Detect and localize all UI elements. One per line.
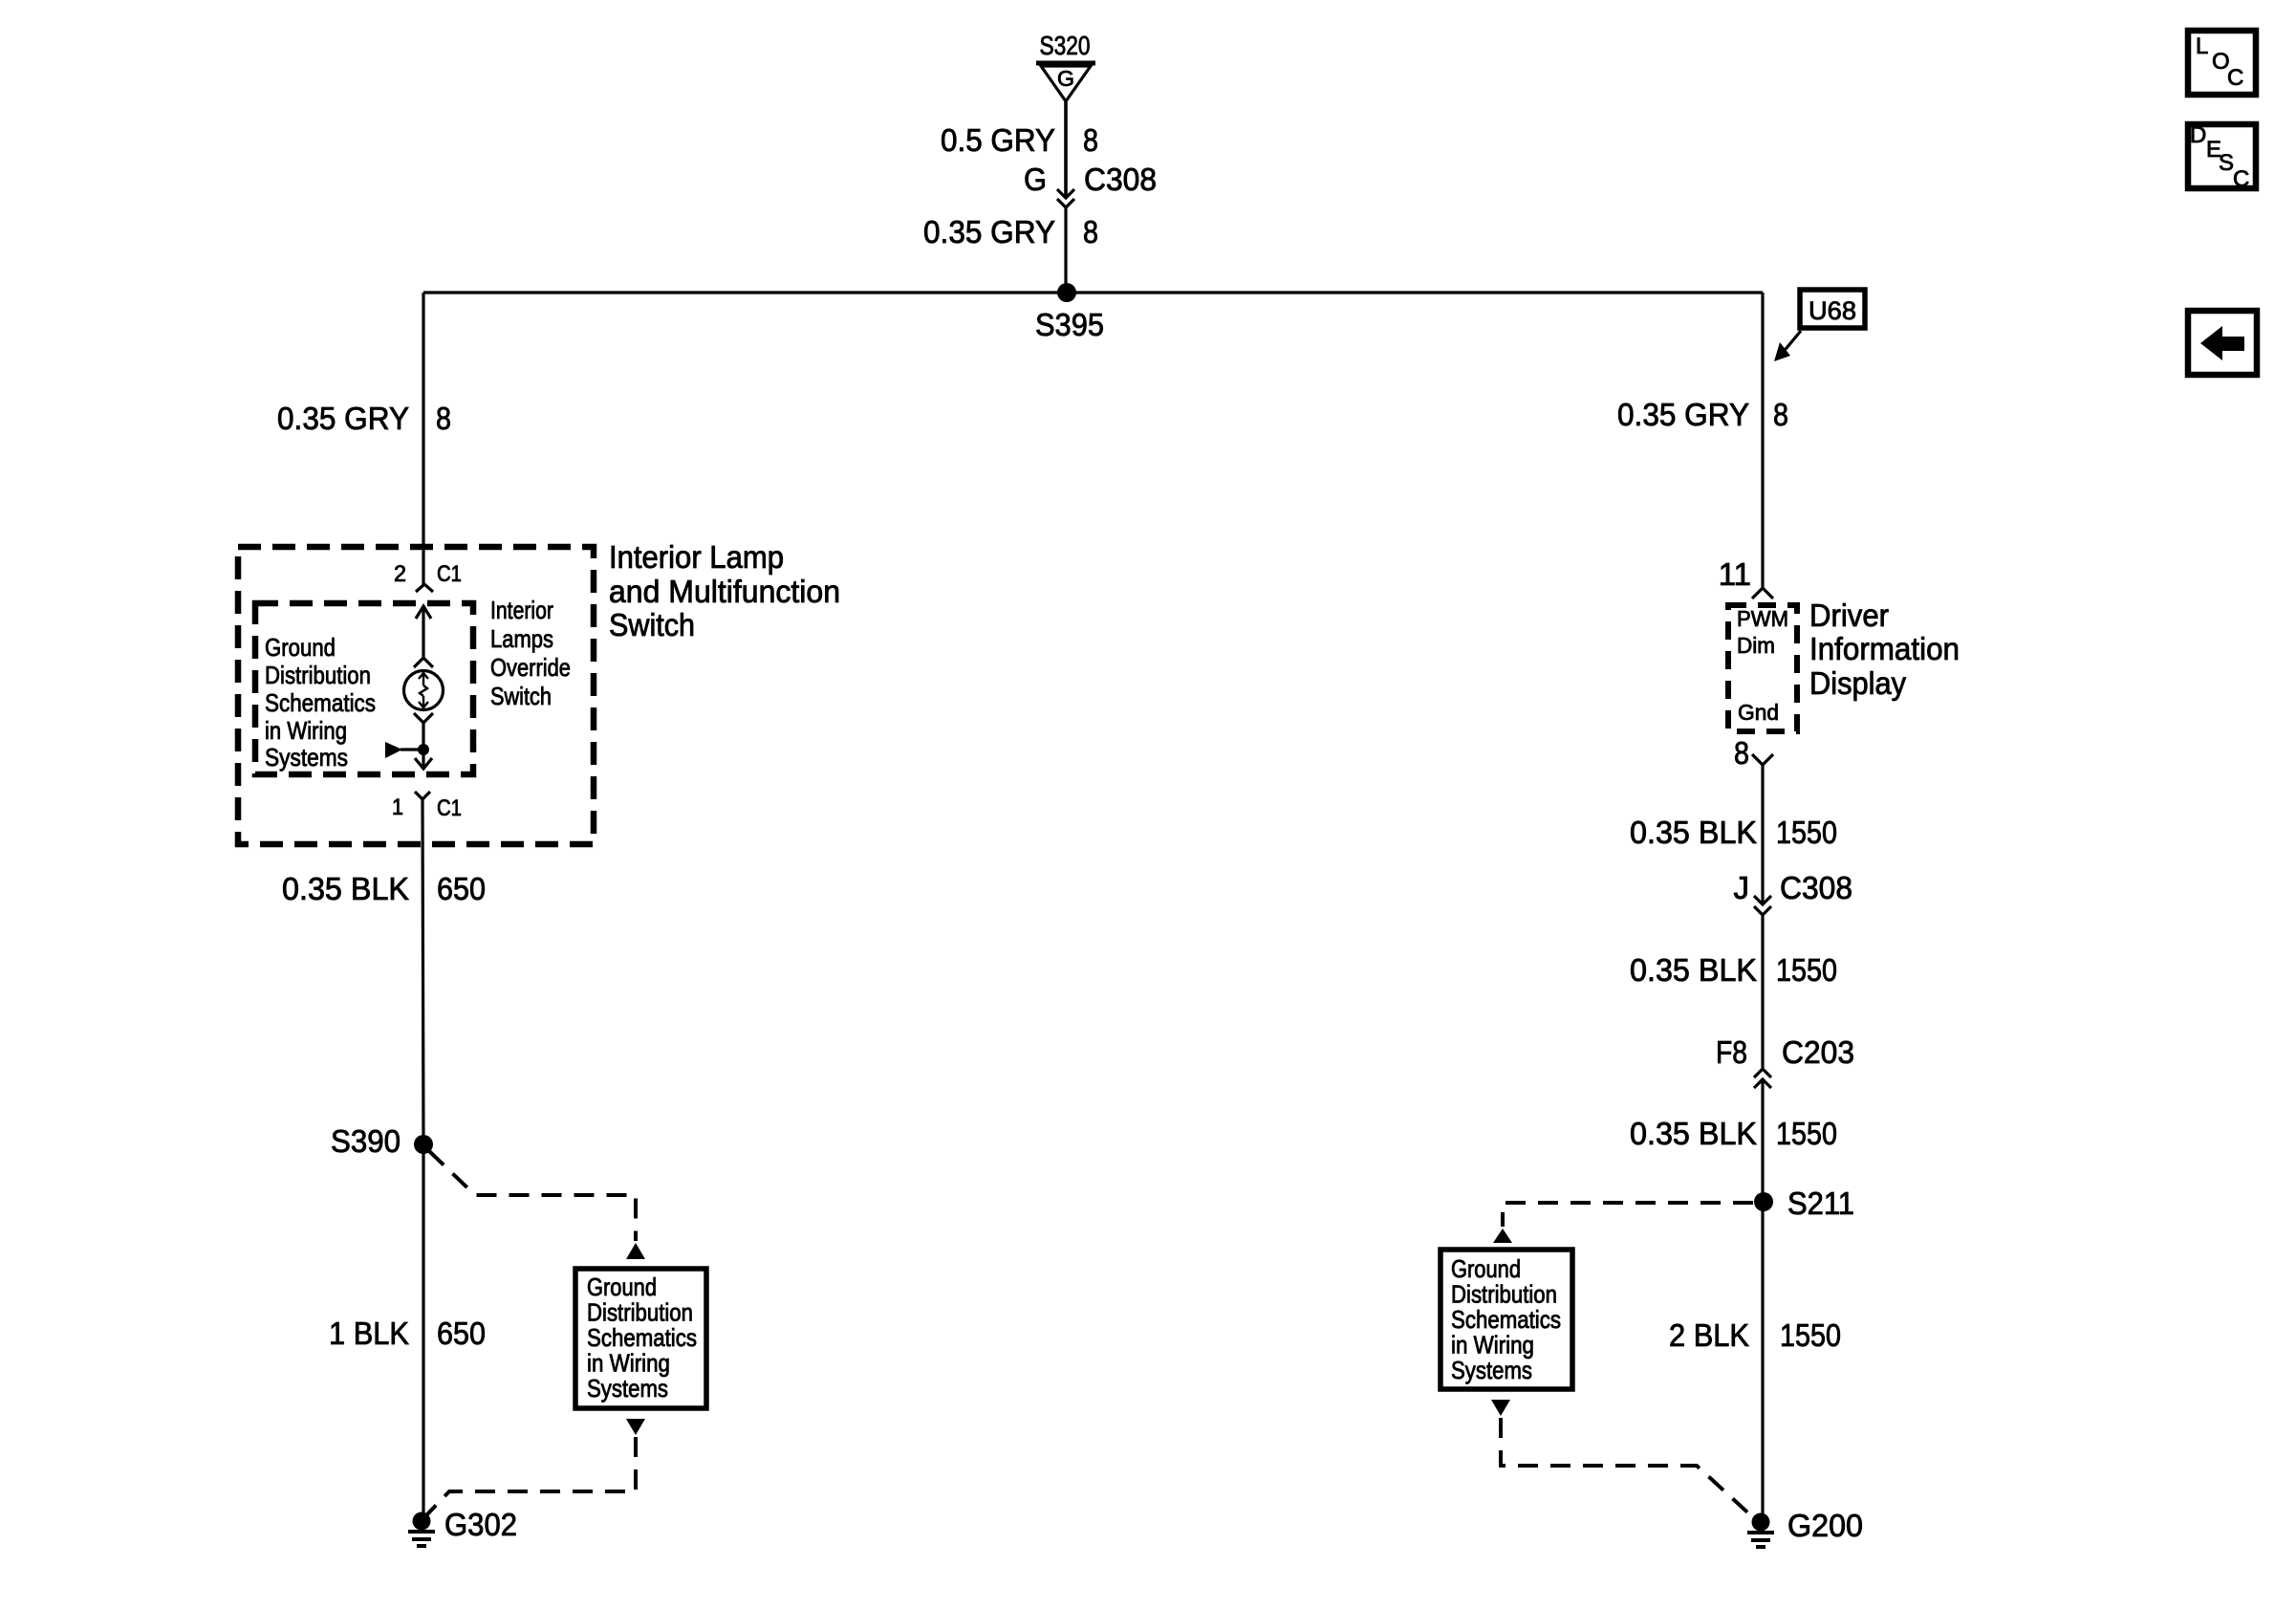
pin 11 chevron bbox=[1752, 588, 1773, 598]
wire 0.35 BLK from pin 1 to S390 bbox=[422, 799, 423, 1144]
svg-text:G302: G302 bbox=[444, 1507, 517, 1542]
svg-text:L: L bbox=[2196, 33, 2208, 59]
dashed reference link from box to G302 bbox=[426, 1419, 645, 1515]
chevron above override switch circle bbox=[414, 658, 433, 667]
pin 1 C1 label bbox=[392, 794, 462, 821]
wire 0.5 GRY from S320 to C308 bbox=[1064, 101, 1068, 197]
svg-text:Driver: Driver bbox=[1809, 598, 1889, 633]
splice junction S390 bbox=[414, 1135, 433, 1154]
svg-text:D: D bbox=[2190, 122, 2206, 148]
connector C308 pin G label bbox=[1024, 162, 1157, 197]
svg-text:Switch: Switch bbox=[609, 607, 695, 642]
switch wire down-arrow inside inner box bbox=[415, 750, 432, 769]
wire 1 BLK from S390 to G302 bbox=[422, 1144, 424, 1516]
junction dot inside switch bbox=[418, 744, 429, 755]
svg-text:Override: Override bbox=[490, 653, 571, 682]
wire 0.35 BLK pin 8 to C308 bbox=[1761, 765, 1764, 903]
svg-text:Switch: Switch bbox=[490, 682, 552, 710]
svg-text:Distribution: Distribution bbox=[265, 661, 371, 689]
svg-text:C: C bbox=[2233, 166, 2249, 192]
svg-text:8: 8 bbox=[436, 401, 451, 436]
pin 8 label bbox=[1734, 735, 1749, 771]
svg-text:Schematics: Schematics bbox=[1451, 1305, 1561, 1334]
wire 0.35 BLK C308 to C203 bbox=[1761, 915, 1764, 1069]
svg-text:J: J bbox=[1734, 870, 1750, 905]
svg-text:S320: S320 bbox=[1040, 31, 1091, 60]
splice S390 label bbox=[331, 1123, 401, 1159]
svg-text:C308: C308 bbox=[1780, 870, 1852, 905]
wire right branch vertical (bus to pin 11) bbox=[1761, 293, 1764, 588]
svg-text:650: 650 bbox=[437, 871, 486, 906]
svg-text:0.35 BLK: 0.35 BLK bbox=[1630, 952, 1757, 988]
pin name PWM Dim bbox=[1737, 606, 1788, 658]
switch wire up-arrow inside inner box bbox=[416, 606, 431, 657]
svg-text:S395: S395 bbox=[1035, 307, 1104, 342]
wire 0.35 BLK C203 to S211 bbox=[1761, 1079, 1764, 1202]
svg-text:Systems: Systems bbox=[1451, 1356, 1532, 1384]
svg-text:0.35 BLK: 0.35 BLK bbox=[1630, 1116, 1757, 1151]
svg-text:C1: C1 bbox=[437, 561, 462, 587]
pin name Gnd bbox=[1738, 700, 1779, 725]
legend box DESC bbox=[2188, 122, 2256, 192]
pin 2 chevron bbox=[416, 584, 433, 592]
connector C308 pin J label bbox=[1734, 870, 1853, 905]
value label 0.35 GRY 8 (upper) bbox=[923, 214, 1098, 250]
wire 0.35 GRY from C308 to S395 bbox=[1064, 207, 1067, 293]
pin 1 chevron bbox=[415, 792, 430, 799]
svg-text:Distribution: Distribution bbox=[587, 1298, 693, 1327]
svg-text:8: 8 bbox=[1083, 214, 1098, 250]
component box Interior Lamp and Multifunction Switch (dashed) bbox=[238, 547, 594, 844]
svg-text:PWM: PWM bbox=[1737, 606, 1788, 631]
svg-text:0.35 BLK: 0.35 BLK bbox=[282, 871, 409, 906]
reference box Ground Distribution Schematics (right) bbox=[1440, 1250, 1572, 1389]
svg-text:2 BLK: 2 BLK bbox=[1669, 1317, 1749, 1353]
chevron below override switch circle bbox=[414, 713, 433, 723]
value label 0.35 BLK 650 bbox=[282, 871, 486, 906]
svg-text:Schematics: Schematics bbox=[265, 688, 376, 717]
svg-text:8: 8 bbox=[1734, 735, 1749, 771]
pin 2 C1 label bbox=[394, 561, 462, 587]
legend box LOC bbox=[2188, 31, 2256, 95]
svg-text:0.35 GRY: 0.35 GRY bbox=[277, 401, 409, 436]
svg-text:Lamps: Lamps bbox=[490, 624, 553, 653]
svg-text:in Wiring: in Wiring bbox=[1451, 1331, 1534, 1360]
svg-text:8: 8 bbox=[1773, 397, 1788, 432]
wire from circle to junction bbox=[422, 723, 424, 750]
dashed reference link from S211 to ground distribution box (right) bbox=[1493, 1203, 1753, 1243]
svg-text:Interior: Interior bbox=[490, 596, 553, 624]
svg-text:11: 11 bbox=[1719, 556, 1751, 592]
inner dashed box Ground Distribution Schematics reference bbox=[255, 603, 473, 774]
svg-text:Schematics: Schematics bbox=[587, 1323, 697, 1352]
svg-text:and Multifunction: and Multifunction bbox=[609, 574, 840, 609]
wire 2 BLK S211 to G200 bbox=[1761, 1202, 1764, 1517]
connector C308 symbol (double chevron down) bbox=[1754, 896, 1771, 915]
splice junction S211 bbox=[1754, 1192, 1773, 1211]
svg-text:C203: C203 bbox=[1782, 1034, 1854, 1070]
reference box Ground Distribution Schematics (left) bbox=[575, 1269, 706, 1408]
component box Driver Information Display (dashed) bbox=[1728, 605, 1797, 731]
svg-text:S390: S390 bbox=[331, 1123, 401, 1159]
splice S320 label bbox=[1040, 31, 1091, 60]
connector C308 symbol (double chevron) bbox=[1057, 189, 1074, 207]
svg-text:1550: 1550 bbox=[1780, 1317, 1841, 1353]
svg-text:Systems: Systems bbox=[265, 743, 348, 772]
svg-text:C1: C1 bbox=[437, 795, 462, 821]
svg-text:S: S bbox=[2219, 150, 2234, 176]
dashed reference link from S390 to ground distribution box bbox=[429, 1151, 645, 1259]
value label 1 BLK 650 bbox=[329, 1316, 486, 1351]
svg-text:C308: C308 bbox=[1084, 162, 1157, 197]
svg-text:0.35 GRY: 0.35 GRY bbox=[923, 214, 1055, 250]
note text Ground Distribution Schematics in Wiring Systems (left inner) bbox=[265, 633, 376, 772]
svg-text:1550: 1550 bbox=[1776, 952, 1837, 988]
svg-text:Ground: Ground bbox=[587, 1273, 657, 1301]
legend box back-arrow bbox=[2188, 311, 2257, 375]
power triangle S320 bbox=[1036, 63, 1095, 101]
svg-text:Dim: Dim bbox=[1737, 633, 1775, 658]
svg-text:650: 650 bbox=[437, 1316, 486, 1351]
svg-text:S211: S211 bbox=[1787, 1186, 1854, 1221]
svg-text:G200: G200 bbox=[1787, 1508, 1863, 1543]
callout box U68 bbox=[1800, 290, 1865, 328]
svg-text:1550: 1550 bbox=[1776, 815, 1837, 850]
svg-text:Systems: Systems bbox=[587, 1374, 668, 1403]
svg-text:F8: F8 bbox=[1716, 1034, 1747, 1070]
svg-text:Ground: Ground bbox=[265, 633, 336, 662]
ground symbol G200 bbox=[1747, 1513, 1774, 1548]
ground G302 label bbox=[444, 1507, 517, 1542]
svg-text:0.5 GRY: 0.5 GRY bbox=[941, 122, 1055, 158]
value label 0.35 GRY 8 (right branch) bbox=[1617, 397, 1788, 432]
svg-text:in Wiring: in Wiring bbox=[587, 1349, 670, 1378]
svg-text:1: 1 bbox=[392, 794, 403, 820]
value label 0.35 BLK 1550 (first) bbox=[1630, 815, 1837, 850]
svg-text:Interior Lamp: Interior Lamp bbox=[609, 539, 784, 575]
svg-text:1 BLK: 1 BLK bbox=[329, 1316, 409, 1351]
wire left branch vertical (bus to pin 2) bbox=[422, 293, 424, 584]
value label 0.35 BLK 1550 (third) bbox=[1630, 1116, 1837, 1151]
main bus wire (horizontal) bbox=[423, 291, 1763, 294]
svg-text:Display: Display bbox=[1809, 665, 1906, 701]
connector C203 pin F8 label bbox=[1716, 1034, 1854, 1070]
ground symbol G302 bbox=[408, 1512, 435, 1547]
svg-text:Ground: Ground bbox=[1451, 1254, 1521, 1283]
svg-text:G: G bbox=[1057, 66, 1074, 91]
value label 0.35 GRY 8 (left branch) bbox=[277, 401, 451, 436]
value label 2 BLK 1550 bbox=[1669, 1317, 1841, 1353]
svg-text:in Wiring: in Wiring bbox=[265, 716, 347, 745]
svg-text:C: C bbox=[2227, 65, 2243, 91]
override switch circle symbol bbox=[404, 671, 444, 710]
splice junction S395 bbox=[1057, 283, 1076, 302]
svg-text:U68: U68 bbox=[1809, 296, 1856, 325]
splice S395 label bbox=[1035, 307, 1104, 342]
net G label inside triangle bbox=[1057, 66, 1074, 91]
svg-text:Information: Information bbox=[1809, 631, 1960, 666]
pin 8 chevron bbox=[1752, 754, 1773, 765]
value label 0.5 GRY 8 bbox=[941, 122, 1098, 158]
dashed reference link from box to G200 bbox=[1491, 1400, 1755, 1519]
value label 0.35 BLK 1550 (second) bbox=[1630, 952, 1837, 988]
callout arrow from U68 to wire bbox=[1774, 331, 1801, 361]
off-page triangle feed into switch junction bbox=[385, 742, 423, 758]
svg-text:1550: 1550 bbox=[1776, 1116, 1837, 1151]
svg-text:Distribution: Distribution bbox=[1451, 1280, 1557, 1309]
svg-text:8: 8 bbox=[1083, 122, 1098, 158]
svg-text:2: 2 bbox=[394, 561, 406, 587]
svg-text:0.35 GRY: 0.35 GRY bbox=[1617, 397, 1749, 432]
component title Interior Lamp and Multifunction Switch bbox=[609, 539, 840, 642]
splice S211 label bbox=[1787, 1186, 1854, 1221]
connector C203 symbol (double chevron up) bbox=[1754, 1069, 1771, 1088]
pin 11 label bbox=[1719, 556, 1751, 592]
component title Driver Information Display bbox=[1809, 598, 1960, 701]
svg-text:Gnd: Gnd bbox=[1738, 700, 1779, 725]
svg-text:G: G bbox=[1024, 162, 1047, 197]
svg-text:0.35 BLK: 0.35 BLK bbox=[1630, 815, 1757, 850]
ground G200 label bbox=[1787, 1508, 1863, 1543]
note text Interior Lamps Override Switch bbox=[490, 596, 571, 710]
